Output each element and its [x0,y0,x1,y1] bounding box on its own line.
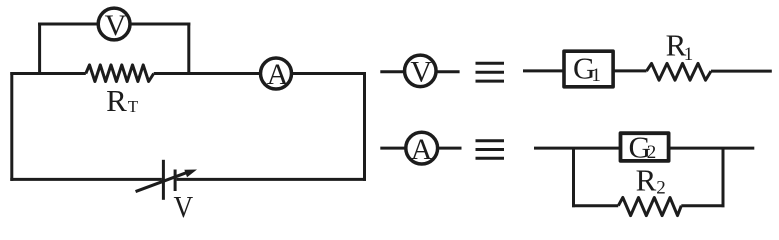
resistor R1 [647,63,712,80]
galvanometer G1 box [564,51,613,87]
wire parallel branch right vertical [722,148,725,207]
voltmeter V1 circle [98,8,130,40]
wire row1 to G1 box [523,69,564,72]
wire left circuit left rail [10,72,13,181]
wire row2 left dash [380,147,405,150]
wire left circuit right rail [363,72,366,181]
svg-text:V: V [105,9,127,42]
wire voltmeter branch top right segment [130,23,190,26]
wire bottom branch right segment [681,204,724,207]
wire voltmeter branch left vertical [38,23,41,76]
wire left circuit top: segment from left rail to RT [10,72,86,75]
wire top between RT and ammeter [154,72,260,75]
wire bottom branch left segment [572,204,618,207]
svg-text:R2: R2 [636,163,666,199]
battery variable arrow shaft [135,170,197,194]
resistor RT [86,65,154,82]
wire G1 to R1 [614,69,647,72]
wire top between ammeter and right rail [292,72,366,75]
svg-text:V: V [174,190,194,224]
battery short plate [174,170,177,192]
ammeter A2 circle [406,132,438,164]
wire row2 main left segment [534,147,621,150]
wire row1 left dash [380,70,404,73]
svg-text:V: V [410,56,432,89]
equivalence sign row1 [476,63,505,81]
equivalence sign row2 [476,141,505,159]
wire row2 main right segment [669,147,755,150]
battery long plate [162,160,165,200]
resistor R2 [618,198,681,216]
battery variable arrow head [184,170,197,178]
svg-text:A: A [411,133,433,166]
wire row1 right dash [437,70,460,73]
ammeter A1 circle [261,58,292,89]
svg-text:G1: G1 [573,50,601,86]
wire bottom right segment from battery [177,178,366,181]
wire parallel branch left vertical [572,148,575,207]
voltmeter V2 circle [405,55,437,87]
wire voltmeter branch right vertical [187,23,190,76]
wire bottom left segment to battery [10,178,162,181]
svg-text:R1: R1 [666,27,694,65]
wire row1 right end [711,70,772,73]
galvanometer G2 box [621,133,669,161]
wire voltmeter branch top left segment [38,23,98,26]
wire row2 right dash [439,147,462,150]
svg-text:A: A [267,58,289,91]
svg-text:RT: RT [106,83,139,118]
